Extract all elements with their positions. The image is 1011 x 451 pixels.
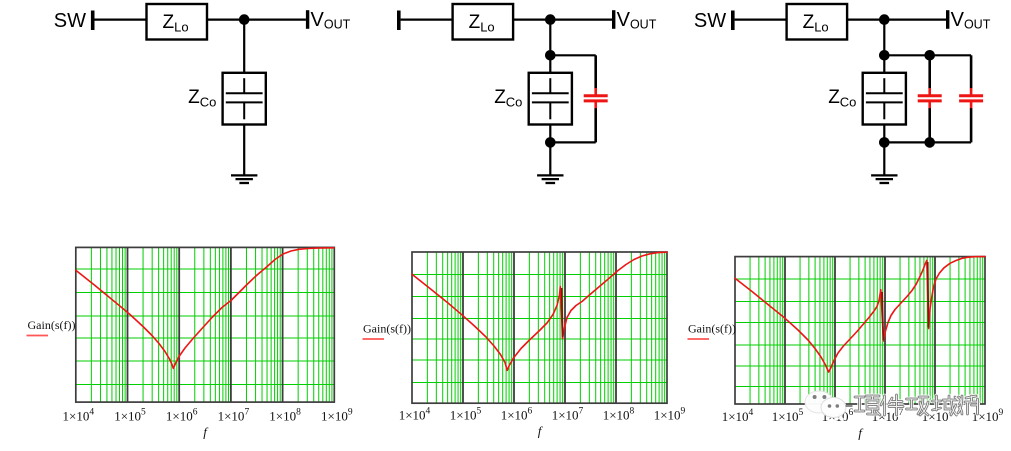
- svg-text:Gain(s(f)): Gain(s(f)): [363, 322, 411, 336]
- svg-text:SW: SW: [54, 10, 86, 32]
- svg-text:Gain(s(f)): Gain(s(f)): [28, 318, 76, 332]
- svg-text:Gain(s(f)): Gain(s(f)): [688, 322, 736, 336]
- svg-text:SW: SW: [694, 10, 726, 32]
